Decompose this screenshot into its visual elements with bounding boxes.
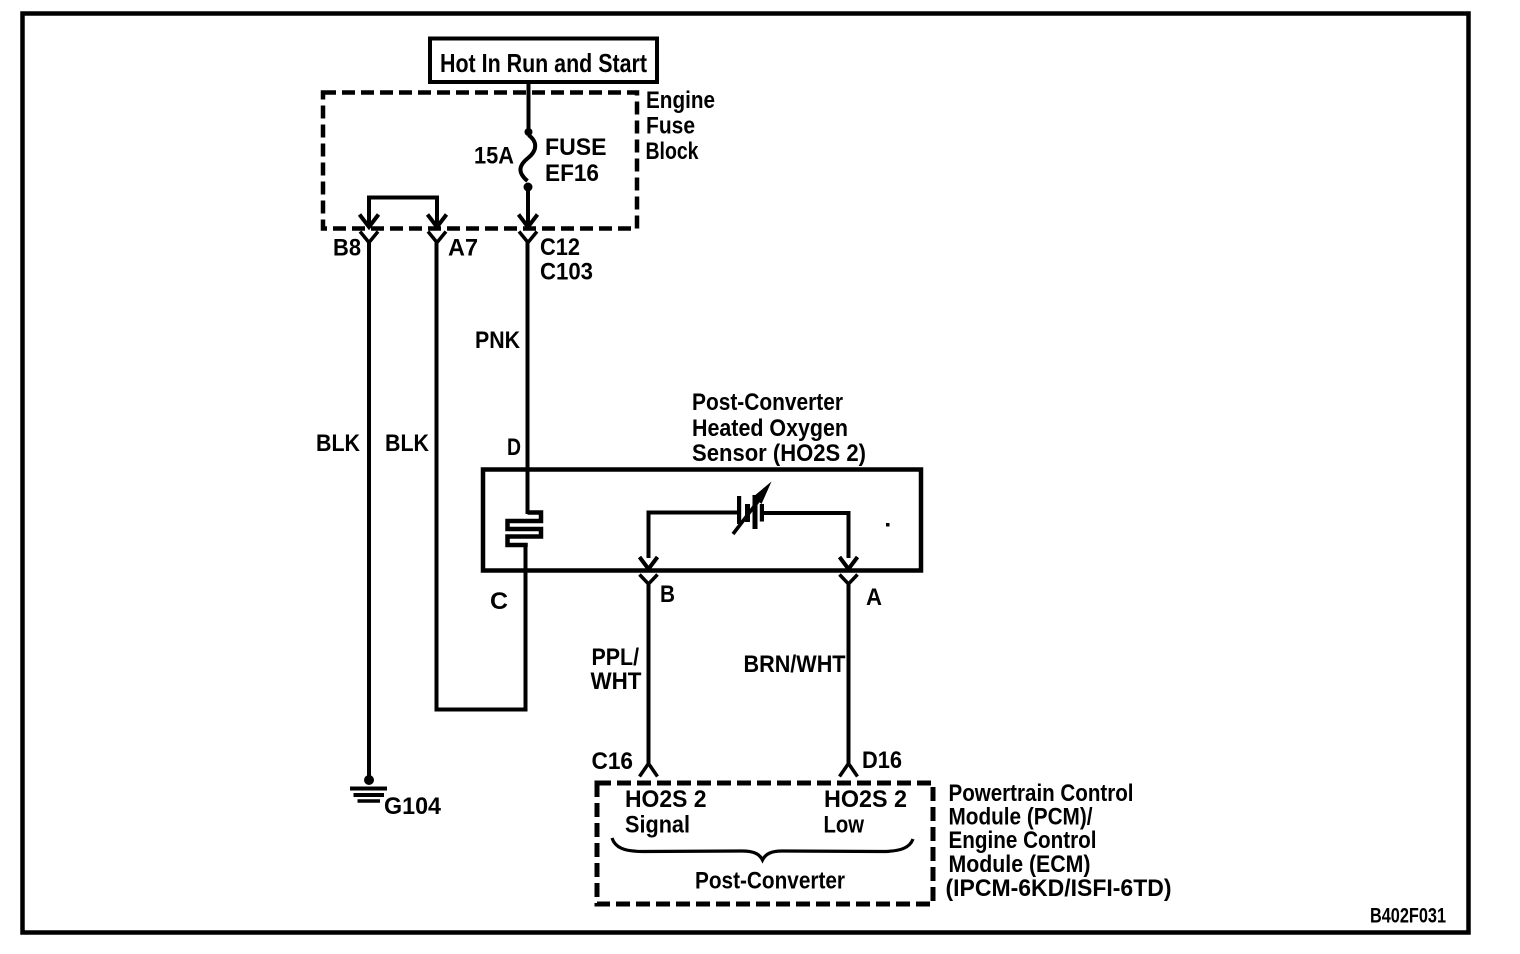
heater element [508,513,542,548]
svg-text:FUSE: FUSE [545,134,607,161]
svg-text:D: D [507,434,521,461]
label: HO2S 2 Low [824,786,908,839]
sensor cell plates [737,495,764,529]
svg-text:Engine Control: Engine Control [949,827,1097,854]
fuse block internal bus bar to B8 A7 [369,198,437,225]
svg-text:(IPCM-6KD/ISFI-6TD): (IPCM-6KD/ISFI-6TD) [946,875,1172,902]
svg-text:C16: C16 [592,748,634,775]
wire BLK from A7 down and over to C [437,243,526,710]
svg-text:BRN/WHT: BRN/WHT [744,651,846,678]
label: FUSE EF16 [545,134,607,187]
wire from Hot box into fuse block [527,82,531,129]
label: Powertrain Control Module block [946,780,1172,902]
svg-text:Post-Converter: Post-Converter [695,868,845,895]
svg-text:15A: 15A [474,143,514,170]
svg-text:Fuse: Fuse [646,113,695,140]
label: HO2S 2 Signal [625,786,707,839]
svg-text:D16: D16 [862,747,902,774]
arrow into A7 [428,215,447,228]
wire BRN/WHT A to D16 [847,584,851,763]
svg-text:Engine: Engine [646,87,715,114]
fuse F EF16 upper terminal dot [525,128,533,136]
arrow into B8 [360,215,379,228]
wire PPL/WHT B to C16 [647,584,651,763]
brace under HO2S labels [612,838,913,860]
speck [886,523,890,527]
svg-text:BLK: BLK [316,430,361,457]
svg-text:C: C [490,588,508,615]
svg-text:Module (ECM): Module (ECM) [949,851,1091,878]
svg-text:Sensor (HO2S 2): Sensor (HO2S 2) [692,440,866,467]
connector Y at B8 [360,232,378,243]
variable arrow through sensor cell [733,500,759,534]
connector Y at C12 [519,232,537,243]
fuse element squiggle [520,135,535,181]
Engine Fuse Block dashed box [323,93,637,229]
svg-text:Hot In Run and Start: Hot In Run and Start [440,48,647,78]
svg-text:B8: B8 [333,235,361,262]
svg-text:EF16: EF16 [545,160,599,187]
label: Engine Fuse Block [646,87,716,165]
svg-text:A: A [866,584,882,611]
arrow into C12 [519,215,538,228]
svg-text:PNK: PNK [475,327,521,354]
svg-text:G104: G104 [384,793,442,820]
sensor cell wire left [649,513,738,559]
connector fork at D16 [840,764,858,777]
svg-text:WHT: WHT [591,668,642,695]
wire PNK from C12 to heater [526,243,530,515]
connector fork at C16 [640,764,658,777]
svg-text:A7: A7 [448,235,478,262]
arrow to A inside box [840,557,858,569]
svg-text:C103: C103 [540,259,593,286]
label: PPL/ WHT [591,644,642,695]
connector Y at A7 [428,232,446,243]
sensor cell wire right [764,513,849,558]
svg-text:PPL/: PPL/ [592,644,640,671]
connector Y at B [640,575,658,585]
svg-text:Heated Oxygen: Heated Oxygen [692,415,848,442]
wire fuse to C12 [526,190,530,226]
PCM dashed box [597,783,933,904]
label: Post-Converter Heated Oxygen Sensor (HO2S 2) [692,389,866,467]
svg-text:Block: Block [646,138,700,165]
svg-text:Low: Low [824,812,865,839]
svg-text:B: B [660,581,675,608]
svg-text:BLK: BLK [385,430,430,457]
arrow to B inside box [640,557,658,569]
svg-text:C12: C12 [540,234,580,261]
ground G104 dot [364,775,374,785]
svg-text:HO2S 2: HO2S 2 [625,786,707,813]
fuse lower terminal dot [524,183,533,192]
wire BLK from B8 to G104 [367,243,371,778]
ground G104 symbol [350,787,387,791]
svg-text:Post-Converter: Post-Converter [692,389,843,416]
HO2S 2 sensor box [483,470,921,571]
svg-text:B402F031: B402F031 [1370,905,1446,928]
svg-text:Signal: Signal [625,812,690,839]
connector Y at A [840,575,858,585]
Hot In Run and Start box [430,39,657,83]
svg-text:HO2S 2: HO2S 2 [824,786,907,813]
